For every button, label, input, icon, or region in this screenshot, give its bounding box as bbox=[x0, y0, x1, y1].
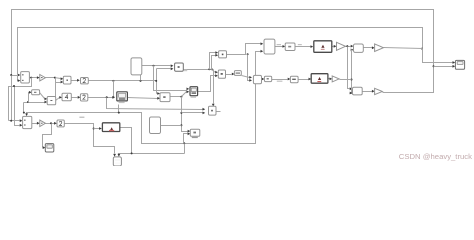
wire: branch to scope U_out in2 bbox=[434, 66, 453, 68]
node: junction on y=112.4 wire bbox=[23, 112, 25, 114]
block T (2 inputs) bbox=[160, 93, 170, 102]
node: bus junction 2 bbox=[140, 80, 142, 82]
annotation: label on N-O1 wire bbox=[298, 44, 302, 45]
sum M2 bbox=[353, 87, 363, 95]
wire: V out to N bbox=[275, 46, 283, 48]
wire: tap down then right to P in1 bbox=[107, 98, 203, 110]
wire: bus tap down to G-U1 wire bbox=[113, 81, 115, 98]
node: junction H out on bottom bus bbox=[131, 152, 133, 154]
wire: X out to Y bbox=[261, 79, 263, 81]
block K2 bbox=[57, 120, 64, 127]
svg-text:CSDN @heavy_truck: CSDN @heavy_truck bbox=[399, 152, 472, 161]
wire: tap down to U2 in1 bbox=[154, 66, 187, 91]
node: junction for D input tap bbox=[27, 101, 29, 103]
wire: drop to sum M2 in1 bbox=[348, 47, 350, 89]
wire: bus end vertical to S in2 (up) and T in1 (down) bbox=[156, 69, 158, 94]
sum V (2 inputs) bbox=[264, 39, 275, 54]
striped scope block SB (two top ports) bbox=[113, 157, 121, 166]
block R (2 inputs) bbox=[190, 129, 200, 136]
orange block O2 bbox=[311, 74, 328, 84]
wire: W out up to V in1 bbox=[227, 44, 261, 55]
scope U1 (dark) bbox=[117, 92, 128, 101]
wire: bottom bus y=153.4 from SB top-right riser to x=184.2 bbox=[119, 154, 185, 156]
scope U_out (2 inputs) bbox=[455, 60, 464, 69]
wire: K2 out right, down, into H in bbox=[65, 124, 115, 154]
wire: vertical from junction down along E block bbox=[55, 78, 57, 101]
wire: G7 out to inner loop junction bbox=[384, 48, 423, 49]
block P (2 inputs + top port) bbox=[209, 106, 217, 115]
sum block A1 bbox=[21, 72, 30, 83]
wire: vertical from y=112.4 wire up to E in2 wire bbox=[23, 103, 25, 113]
scope SC2 bbox=[45, 144, 54, 152]
node: junction on T out bbox=[180, 96, 182, 98]
wire: abs out to X in1 bbox=[242, 76, 250, 78]
gain G4 bbox=[332, 76, 339, 82]
block G gain 2 bbox=[80, 94, 87, 101]
node: junction on x=351.5 from G4 out bbox=[351, 79, 353, 81]
wire: into product B1 in2 bbox=[56, 82, 61, 84]
O2 icon bbox=[318, 77, 321, 80]
wire: E out diagonal to F in bbox=[56, 98, 60, 101]
annotation: label on Y-Z wire bbox=[277, 81, 283, 82]
scope U1 screen bbox=[119, 93, 126, 97]
wire: tap down, left and into bottom verticals bbox=[9, 78, 32, 121]
wire: D out diagonal to E in1 bbox=[40, 93, 45, 99]
node: junction on TB out bbox=[153, 65, 155, 67]
wire: riser from bottom bus up to y=143 wire bbox=[184, 144, 186, 154]
node: junction x=11.2 on bottom sum in1 wire bbox=[10, 120, 12, 122]
gain G7 bbox=[375, 44, 384, 52]
wire: down to R in1 bbox=[182, 97, 188, 132]
wire: inner feedback loop (top gain G7 output around to sum A1 in2) bbox=[18, 28, 423, 81]
node: junction S out tap W in1 bbox=[208, 68, 210, 70]
block D (minus) bbox=[32, 90, 40, 95]
wire: Q out to abs bbox=[226, 74, 232, 76]
wire: S out long wire with taps bbox=[184, 69, 214, 71]
node: junction on G5 out bbox=[346, 45, 348, 47]
node: junction at x=184.4 bbox=[183, 142, 185, 144]
node: junction on G1 output bbox=[54, 77, 56, 79]
bottom sum A2 bbox=[23, 116, 32, 128]
sum X (2 inputs) bbox=[253, 75, 261, 83]
wire: TB2 output to junction bbox=[161, 125, 182, 127]
wire: sum A1 output to gain G1 bbox=[30, 77, 38, 79]
wire: TB out to S in1 bbox=[142, 65, 171, 67]
wire: riser to W in1 bbox=[210, 53, 216, 70]
integrator block TB2 bbox=[150, 117, 161, 134]
node: junction TB2 output on x=181.4 bbox=[180, 124, 182, 126]
wire: G5 out to sum M1 in1 bbox=[346, 46, 351, 48]
wire: row1 bus from B2 output bbox=[89, 80, 157, 82]
gain G5 bbox=[337, 42, 346, 50]
block S (2 inputs) bbox=[175, 63, 184, 71]
block Z bbox=[290, 76, 298, 82]
wire: riser to W in2 bbox=[212, 56, 216, 70]
wire: diagonal into Q in1 bbox=[212, 70, 216, 73]
wire: G4 out to junction x=351.5 bbox=[340, 79, 352, 81]
node: junction H input tap bbox=[93, 128, 95, 130]
wire: to P in2 bbox=[182, 112, 203, 114]
wire: bottom sum in1 horizontal bbox=[9, 120, 20, 122]
sum M1 bbox=[354, 44, 364, 52]
node: junction for P in2 tap bbox=[180, 112, 182, 114]
wire: cross vertical x=351.5 up to M1 in2, down to M2 in2 bbox=[352, 49, 354, 51]
wire: vertical x=14 down to bottom sum in2 bbox=[15, 87, 20, 126]
block Y bbox=[264, 76, 271, 81]
wire: into sum A1 input1 bbox=[12, 75, 18, 77]
wire: N out to orange block O1 bbox=[296, 46, 311, 48]
wire: long y=112.6 wire from bottom sum top port right to x=141.1 down to y=143.2 and up to V in2 bbox=[27, 52, 261, 144]
node: junction on W out bbox=[247, 53, 249, 55]
gain G3 bbox=[40, 120, 46, 126]
wire: U1 out to T in2 bbox=[128, 98, 158, 99]
O1 icon bbox=[321, 45, 324, 48]
node: junction S out tap W in2 bbox=[211, 68, 213, 70]
wire: H out right then down to bus bbox=[120, 128, 132, 154]
label stub at S output bbox=[184, 70, 187, 72]
product W bbox=[219, 51, 227, 58]
node: junction gain G7 output bbox=[421, 48, 423, 50]
wire: F out to G in bbox=[72, 97, 78, 99]
wire: into orange block H bbox=[94, 128, 100, 130]
wire: P out stub bbox=[217, 111, 221, 113]
wire: tap up into D in bbox=[29, 93, 30, 103]
integrator block TB bbox=[131, 58, 142, 75]
wire: Z-shaped tap down to scope SC2 bbox=[43, 124, 52, 148]
node: junction on G3 out bbox=[50, 122, 52, 124]
wire: riser from y=143 wire up into R in2 bbox=[184, 134, 188, 144]
wire: G3 out to block K2 bbox=[46, 123, 55, 125]
wire: U2 out up to Q in2 bbox=[198, 76, 216, 92]
orange block H bbox=[102, 123, 119, 132]
annotation: label above bottom chain bbox=[79, 117, 84, 118]
wire: bus tap up into TB bottom port bbox=[140, 75, 142, 81]
wire: bottom sum A2 out to gain G3 bbox=[32, 123, 38, 125]
wire: branch down to scope U_out in1 bbox=[423, 49, 453, 63]
block F gain 4 bbox=[62, 93, 71, 101]
node: junction outer loop to scope input 2 bbox=[433, 65, 435, 67]
scope U2 (dark) bbox=[190, 87, 198, 96]
wire: M2 out to gain G6 bbox=[363, 91, 373, 93]
wire: G out to U1 in bbox=[88, 97, 113, 99]
wire: riser from under U1 bbox=[118, 105, 120, 113]
product B1 bbox=[63, 76, 71, 84]
wire: O1 out to gain G5 bbox=[332, 46, 334, 48]
node: junction G-U1 wire tap1 bbox=[106, 96, 108, 98]
block abs bbox=[234, 71, 241, 76]
wire: B1 out to B2 bbox=[72, 80, 78, 82]
node: bus junction 1 bbox=[112, 80, 114, 82]
gain G1 bbox=[40, 75, 46, 81]
wire: outer feedback loop (mid gain G6 output up and around to left sum) bbox=[12, 10, 434, 121]
wire: T out to U2 in2 bbox=[171, 92, 187, 97]
block B2 bbox=[81, 78, 89, 84]
node: junction U1 riser bbox=[118, 112, 120, 114]
node: tap on A1 output bbox=[30, 77, 32, 79]
wire: drop down to X in2 bbox=[248, 55, 250, 81]
wire: Y out to Z (with tiny label) bbox=[272, 79, 288, 81]
sum E bbox=[47, 97, 56, 105]
wire: gain G1 out to product B1 in1 bbox=[46, 78, 61, 79]
gain G6 bbox=[375, 88, 383, 94]
wire: M1 out to gain G7 bbox=[364, 47, 373, 49]
wire: O2 out to gain G4 bbox=[329, 78, 330, 80]
block N bbox=[285, 43, 295, 51]
wire: Z out to orange block O2 bbox=[299, 79, 309, 81]
annotation: label on V output wire bbox=[277, 44, 281, 45]
node: junction G-U1 wire tap2 bbox=[112, 96, 114, 98]
wire: horizontal into E in2 bbox=[24, 102, 45, 104]
node: junction outer loop into sum A1 in1 bbox=[10, 74, 12, 76]
orange block O1 bbox=[314, 41, 332, 53]
block Q bbox=[218, 70, 225, 78]
wire: S out down to P top port bbox=[213, 70, 215, 104]
